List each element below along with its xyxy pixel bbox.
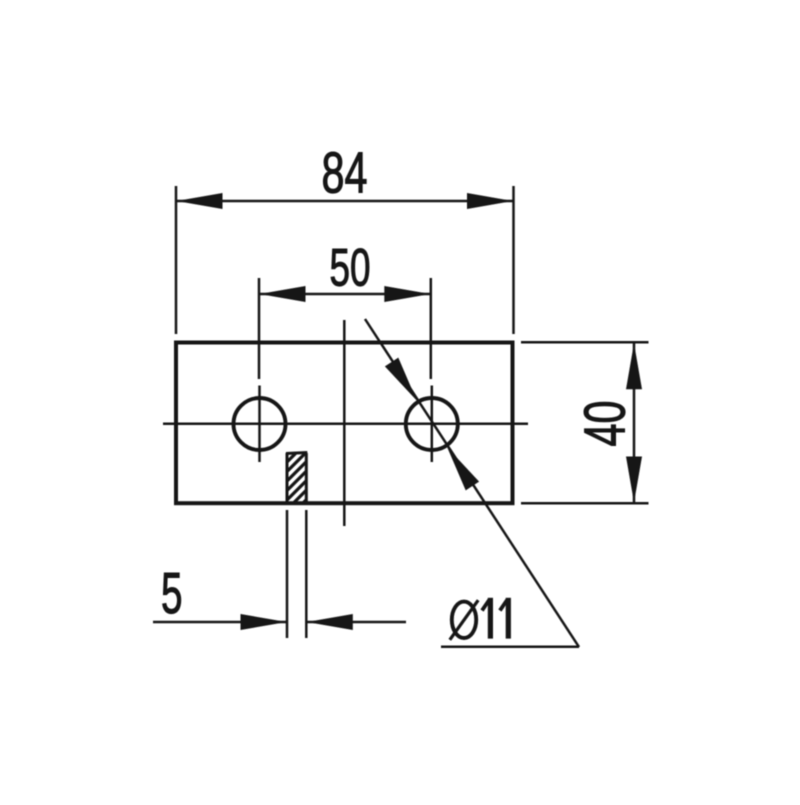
dimension 50 left arrowhead (260, 286, 306, 302)
horizontal centerline through holes (163, 423, 528, 426)
right hole vertical centerline (431, 386, 434, 463)
svg-text:50: 50 (330, 239, 371, 298)
dimension 40 top extension line (521, 341, 649, 344)
dimension 5 right arrowhead (307, 614, 353, 630)
dimension 40 line (633, 343, 636, 503)
right hole (406, 398, 458, 450)
left hole (234, 398, 286, 450)
dimension 5 right extension line (305, 510, 308, 638)
dimension 50 right arrowhead (384, 286, 430, 302)
svg-text:5: 5 (161, 561, 183, 626)
dimension 50 line (259, 293, 431, 296)
dimension 40 bottom extension line (521, 502, 649, 505)
dimension 5 line left segment (153, 621, 287, 624)
left hole vertical centerline (258, 386, 261, 463)
dimension 40 top arrowhead (626, 343, 642, 389)
dimension text 5 (161, 561, 183, 626)
hole diameter text Ø11 (450, 598, 509, 640)
dimension 50 right extension line (430, 278, 433, 379)
dimension 84 left extension line (175, 186, 178, 334)
dimension 5 left arrowhead (241, 614, 287, 630)
plate outline (176, 343, 513, 504)
leader shoulder line (441, 646, 579, 649)
dimension 84 right extension line (512, 186, 515, 334)
dimension 84 line (176, 200, 514, 203)
svg-text:84: 84 (322, 141, 368, 206)
leader line for hole diameter (365, 319, 579, 647)
dimension text 50 (330, 239, 371, 298)
leader lower arrowhead (447, 448, 479, 491)
hatched slot section (277, 432, 317, 529)
svg-text:40: 40 (573, 401, 638, 447)
dimension 84 left arrowhead (177, 193, 223, 209)
vertical plate centerline (343, 320, 346, 526)
dimension 5 left extension line (286, 510, 289, 638)
leader upper arrowhead (385, 358, 417, 401)
dimension 5 line right segment (306, 621, 406, 624)
dimension 50 left extension line (258, 278, 261, 379)
dimension text 84 (322, 141, 368, 206)
dimension 84 right arrowhead (467, 193, 513, 209)
dimension text 40 (rotated) (573, 401, 638, 447)
dimension 40 bottom arrowhead (626, 457, 642, 503)
